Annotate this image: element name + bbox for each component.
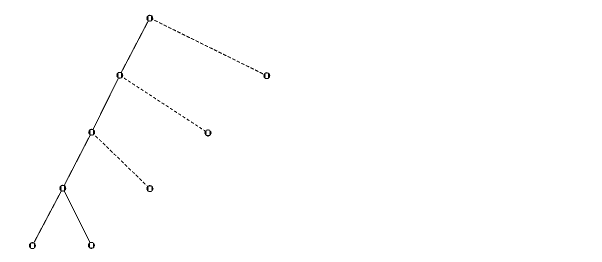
wire B-D solid: [92, 75, 120, 132]
node I: [88, 242, 95, 249]
node A root: [146, 15, 153, 22]
node E: [205, 129, 212, 136]
wire A-C dashed: [150, 18, 267, 76]
wire A-B solid: [120, 18, 150, 75]
node F: [59, 185, 66, 192]
node B: [116, 72, 123, 79]
wire B-E dashed: [120, 75, 208, 133]
wire F-I solid: [63, 188, 92, 245]
wire D-F solid: [63, 132, 92, 188]
wire D-G dashed: [92, 132, 150, 188]
node G: [146, 185, 153, 192]
wire F-H solid: [32, 188, 62, 245]
node C: [263, 72, 270, 79]
node H: [29, 242, 36, 249]
node D: [88, 129, 95, 136]
